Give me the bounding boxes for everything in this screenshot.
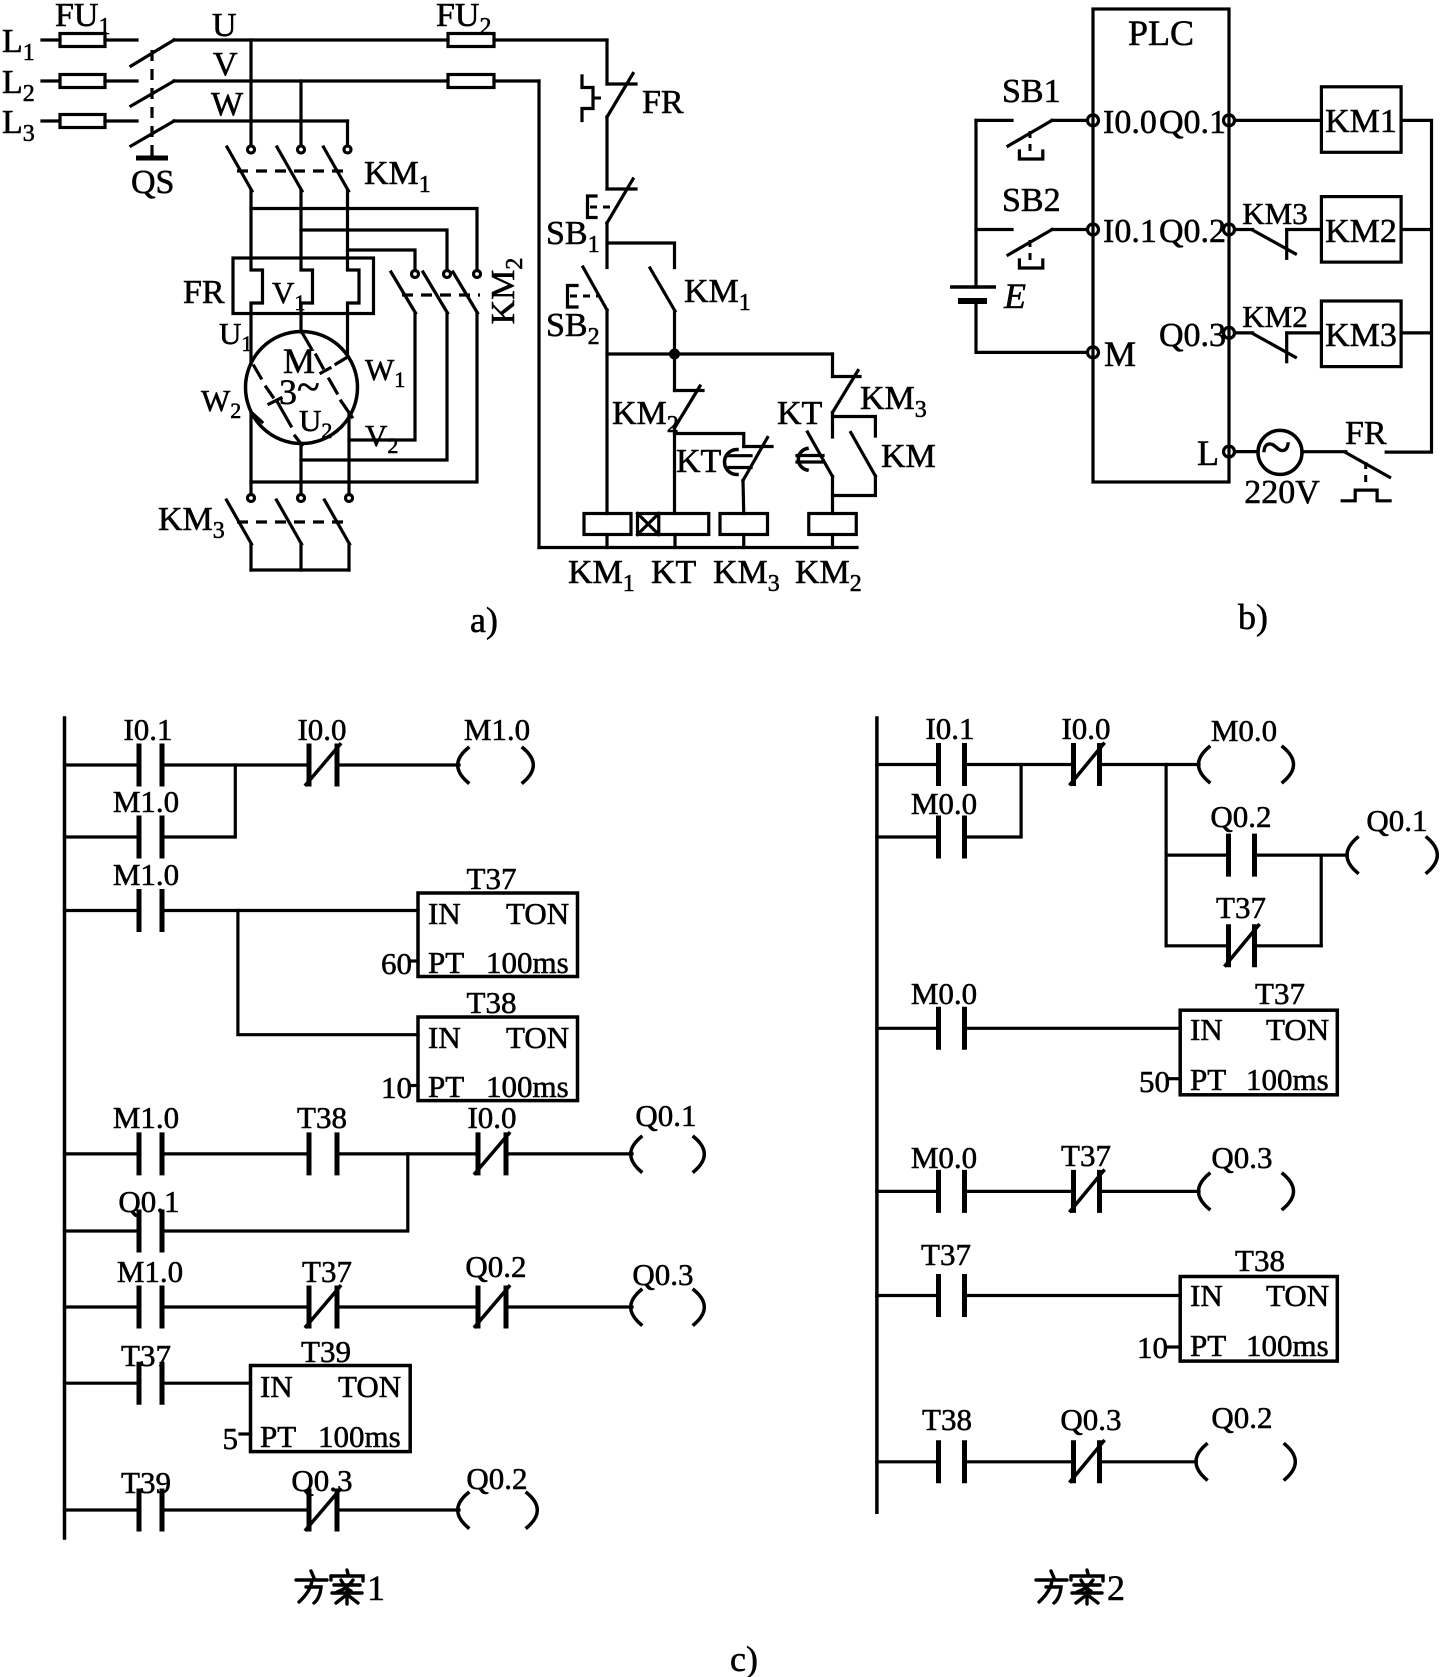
svg-text:Q0.2: Q0.2 xyxy=(465,1249,526,1284)
rung4 wire xyxy=(65,1305,633,1308)
wire junction row xyxy=(607,352,833,355)
T37 preset 60 xyxy=(381,946,418,981)
contactor KM1 aux contact xyxy=(650,268,675,311)
contact M1.0 r3 xyxy=(139,1132,162,1175)
svg-text:50: 50 xyxy=(1139,1064,1170,1099)
SB2 actuator xyxy=(568,286,599,308)
svg-text:60: 60 xyxy=(381,946,412,981)
svg-text:I0.0: I0.0 xyxy=(1103,104,1157,141)
wire input bus xyxy=(976,120,1086,352)
contact Q0.1 latch xyxy=(139,1210,162,1253)
svg-text:T37: T37 xyxy=(1216,890,1266,925)
svg-text:M: M xyxy=(1104,334,1136,374)
svg-text:KT: KT xyxy=(676,443,722,480)
timer box T38 xyxy=(418,1017,578,1101)
wire KM3 coil to bus xyxy=(742,535,745,548)
svg-text:U: U xyxy=(212,7,237,44)
label fangan2 an glyph xyxy=(1071,1570,1103,1604)
svg-text:V: V xyxy=(213,46,238,83)
svg-text:10: 10 xyxy=(381,1070,412,1105)
coil M1.0 xyxy=(458,748,534,783)
wire KM1 coil to bus xyxy=(605,535,608,548)
svg-text:2: 2 xyxy=(1107,1568,1125,1608)
FR heater element 2 xyxy=(301,258,313,314)
svg-text:I0.1: I0.1 xyxy=(1103,213,1157,250)
contactor KM2 linkage xyxy=(402,293,480,296)
svg-text:QS: QS xyxy=(131,164,174,201)
motor winding mark V2 xyxy=(341,401,352,417)
label fangan2 fang glyph xyxy=(1036,1571,1067,1603)
svg-text:100ms: 100ms xyxy=(1246,1328,1329,1363)
wire V drop xyxy=(299,81,302,146)
svg-text:PT: PT xyxy=(428,1069,464,1104)
contactor KM2 NC aux xyxy=(675,354,704,428)
wire Q0.1 to KM1 xyxy=(1235,119,1322,122)
timer box T37 xyxy=(418,893,578,977)
pushbutton SB1 NC xyxy=(607,179,636,223)
thermal relay FR NC contact xyxy=(607,74,636,118)
wire motor V2 down xyxy=(347,414,350,495)
SB1 plunger xyxy=(1019,131,1042,159)
switch QS blade 3 xyxy=(131,121,174,146)
fuse FU1 phase L2 xyxy=(60,75,105,88)
svg-text:IN: IN xyxy=(1190,1012,1223,1047)
svg-text:M0.0: M0.0 xyxy=(911,1140,977,1175)
svg-text:a): a) xyxy=(470,600,498,640)
terminal Q0.2 xyxy=(1224,224,1235,235)
svg-text:c): c) xyxy=(730,1639,758,1677)
label fangan1 an glyph xyxy=(331,1570,363,1604)
svg-text:~: ~ xyxy=(1261,417,1291,479)
T39 preset 5 xyxy=(223,1421,251,1456)
wire U drop xyxy=(249,40,252,146)
svg-text:IN: IN xyxy=(1190,1278,1223,1313)
rung3 wire l2 xyxy=(877,1190,1199,1193)
fuse FU1 phase L1 xyxy=(60,34,105,47)
svg-text:Q0.3: Q0.3 xyxy=(1060,1402,1121,1437)
motor winding mark W1-dash xyxy=(321,358,346,373)
timer KT delayed NC contact xyxy=(725,438,773,481)
SB2 plunger xyxy=(1019,240,1042,268)
svg-text:M1.0: M1.0 xyxy=(113,784,179,819)
contactor KM2 contact 2 xyxy=(423,271,451,314)
svg-text:FR: FR xyxy=(183,274,225,311)
terminal I0.1 xyxy=(1088,224,1099,235)
wire phase V to FR xyxy=(299,191,302,258)
wire KM2 out 2 xyxy=(301,313,447,460)
wire motor W2 down xyxy=(249,412,252,495)
contact M0.0 latch xyxy=(939,816,965,859)
fuse FU1 phase L3 xyxy=(60,115,105,128)
coil KT xyxy=(638,514,709,535)
svg-text:TON: TON xyxy=(506,1020,569,1055)
svg-text:Q0.2: Q0.2 xyxy=(1211,1400,1272,1435)
coil Q0.3 l2 xyxy=(1199,1174,1294,1209)
svg-text:IN: IN xyxy=(260,1369,293,1404)
svg-text:TON: TON xyxy=(338,1369,401,1404)
contactor KM2 contact 1 xyxy=(391,271,419,314)
PLC box xyxy=(1093,9,1229,482)
coil KM2 xyxy=(809,514,857,535)
svg-text:KM3: KM3 xyxy=(1242,196,1307,231)
svg-text:Q0.1: Q0.1 xyxy=(1159,104,1226,141)
contact Q0.3 NC r6 xyxy=(306,1489,340,1532)
svg-text:T37: T37 xyxy=(467,861,517,896)
terminal Q0.1 xyxy=(1224,115,1235,126)
wire L stub xyxy=(1235,450,1259,453)
contact Q0.2 NC r4 xyxy=(475,1286,509,1329)
svg-text:T37: T37 xyxy=(302,1254,352,1289)
wire control feed U-phase xyxy=(605,40,608,84)
svg-text:SB1: SB1 xyxy=(1002,73,1061,110)
relay box KM1 xyxy=(1321,87,1401,153)
SB1 actuator xyxy=(588,196,617,218)
svg-text:b): b) xyxy=(1238,597,1268,637)
FR trip actuator xyxy=(1342,462,1390,501)
svg-text:I0.1: I0.1 xyxy=(925,711,974,746)
svg-text:M1.0: M1.0 xyxy=(113,1100,179,1135)
svg-text:Q0.3: Q0.3 xyxy=(1159,317,1226,354)
rung4 wire l2 xyxy=(877,1294,1180,1297)
contact M1.0 r4 xyxy=(139,1286,162,1329)
contact T37 r5 xyxy=(139,1362,162,1405)
svg-text:M0.0: M0.0 xyxy=(911,976,977,1011)
switch QS linkage xyxy=(150,50,153,157)
fuse FU2 phase U xyxy=(448,34,494,47)
contact T37 NC subnet xyxy=(1226,924,1259,967)
wire output bus xyxy=(1386,120,1431,452)
svg-text:T37: T37 xyxy=(121,1338,171,1373)
svg-text:KM: KM xyxy=(881,438,936,475)
rung2 wire xyxy=(65,909,419,912)
rung6 wire xyxy=(65,1508,460,1511)
svg-text:PLC: PLC xyxy=(1128,13,1194,53)
rung1 wire xyxy=(65,763,460,766)
contactor KM3 contact 1 xyxy=(227,495,255,545)
svg-text:100ms: 100ms xyxy=(486,1069,569,1104)
svg-text:1: 1 xyxy=(367,1568,385,1608)
svg-text:M1.0: M1.0 xyxy=(117,1254,183,1289)
svg-text:KM3: KM3 xyxy=(1325,317,1397,354)
branch M0.0 wire xyxy=(877,765,1021,838)
svg-text:W: W xyxy=(211,86,244,123)
rung3 wire xyxy=(65,1152,633,1155)
coil Q0.2 r6 xyxy=(458,1493,538,1528)
terminal M xyxy=(1088,347,1099,358)
subnet Q0.2 row wire xyxy=(1166,853,1321,856)
interlock contact KM3 NC xyxy=(1253,230,1322,259)
contact T37 NC r3 xyxy=(1071,1170,1104,1213)
svg-text:100ms: 100ms xyxy=(318,1419,401,1454)
svg-text:T38: T38 xyxy=(922,1402,972,1437)
contact Q0.2 xyxy=(1229,834,1255,877)
contactor KM3 contact 2 xyxy=(277,495,305,545)
wire branch to KT contact xyxy=(675,434,744,447)
svg-text:M1.0: M1.0 xyxy=(113,857,179,892)
coil KM3 xyxy=(720,514,768,535)
svg-text:Q0.1: Q0.1 xyxy=(1366,803,1427,838)
contact I0.0 NC l2 xyxy=(1071,743,1104,786)
FR heater element 3 xyxy=(348,258,360,314)
wire L2 feed xyxy=(42,79,137,82)
wire KM2 out 3 xyxy=(251,313,477,482)
timer box T39 xyxy=(251,1366,411,1452)
svg-text:KM2: KM2 xyxy=(1325,213,1397,250)
wire control bottom bus xyxy=(539,546,857,549)
wire W line xyxy=(174,119,348,122)
rung1 wire l2 xyxy=(877,763,1199,766)
svg-text:I0.1: I0.1 xyxy=(123,712,172,747)
contact I0.0 NC r3 xyxy=(475,1132,509,1175)
wire L1 feed xyxy=(42,38,137,41)
wire Q0.3 stub xyxy=(1235,331,1253,334)
svg-text:T38: T38 xyxy=(1235,1243,1285,1278)
svg-text:T38: T38 xyxy=(467,985,517,1020)
subnet vertical left xyxy=(1164,765,1167,946)
wire Q0.2 stub xyxy=(1235,228,1253,231)
contactor KM1 main contact 2 xyxy=(277,146,305,191)
wire L3 feed xyxy=(42,119,137,122)
wire phase W to FR xyxy=(346,191,349,258)
terminal L xyxy=(1224,446,1235,457)
svg-text:Q0.2: Q0.2 xyxy=(1159,213,1226,250)
svg-text:I0.0: I0.0 xyxy=(1061,711,1110,746)
motor winding mark V1 xyxy=(302,333,311,349)
timer KT delayed NO contact xyxy=(797,417,833,477)
contact M0.0 r3 xyxy=(939,1170,965,1213)
wire source to FR xyxy=(1302,450,1346,453)
FR heater actuator xyxy=(582,76,607,121)
node junction dot xyxy=(669,349,680,360)
motor winding mark U2 xyxy=(278,403,302,445)
wire branch V to KM2 xyxy=(301,230,447,271)
svg-text:220V: 220V xyxy=(1244,474,1320,511)
motor winding mark W2 xyxy=(252,413,262,422)
coil Q0.2 l2 xyxy=(1196,1444,1295,1479)
wire FR to motor U1 xyxy=(249,314,252,365)
wire motor U2 down xyxy=(299,444,302,495)
motor winding mark U1-dash xyxy=(254,366,273,397)
contactor KM3 linkage xyxy=(237,520,344,523)
contactor KM3 contact 3 xyxy=(325,495,353,545)
contactor KM1 linkage xyxy=(237,169,344,172)
wire KT contact to KM3 coil xyxy=(741,481,745,514)
wire V line xyxy=(174,79,539,82)
rung5 wire l2 xyxy=(877,1460,1196,1463)
wire to KM2 coil xyxy=(831,496,834,514)
svg-text:Q0.3: Q0.3 xyxy=(291,1463,352,1498)
T38 preset 10 xyxy=(1137,1330,1180,1365)
svg-text:I0.0: I0.0 xyxy=(467,1100,516,1135)
coil Q0.1 l2 xyxy=(1321,838,1437,873)
svg-text:10: 10 xyxy=(1137,1330,1168,1365)
svg-text:I0.0: I0.0 xyxy=(297,712,346,747)
timer box T37 l2 xyxy=(1180,1010,1337,1095)
svg-text:T37: T37 xyxy=(1255,976,1305,1011)
wire parallel bottom bar xyxy=(833,476,876,496)
T38 preset 10 xyxy=(381,1070,418,1105)
svg-text:E: E xyxy=(1003,276,1026,316)
svg-text:Q0.1: Q0.1 xyxy=(118,1184,179,1219)
svg-text:5: 5 xyxy=(223,1421,239,1456)
thermal relay FR heater box xyxy=(233,258,374,314)
contactor KM1 main contact 1 xyxy=(227,146,255,191)
switch QS blade 2 xyxy=(131,81,174,106)
svg-text:FR: FR xyxy=(1345,415,1387,452)
wire W drop xyxy=(346,121,349,146)
wire KM1 aux down xyxy=(673,311,676,354)
motor winding mark V1-dash xyxy=(316,355,337,393)
svg-text:KT: KT xyxy=(777,395,823,432)
contact T39 r6 xyxy=(139,1489,162,1532)
svg-text:T37: T37 xyxy=(1061,1138,1111,1173)
coil Q0.3 xyxy=(631,1290,705,1325)
switch QS bar xyxy=(136,156,168,161)
subnet vertical right xyxy=(1320,855,1323,946)
svg-text:TON: TON xyxy=(1266,1012,1329,1047)
contact I0.1 xyxy=(139,744,162,787)
rung5 wire xyxy=(65,1382,251,1385)
svg-text:SB2: SB2 xyxy=(1002,182,1061,219)
rung2 wire l2 xyxy=(877,1027,1180,1030)
contact T38 r3 xyxy=(309,1132,337,1175)
contactor KM2 contact 3 xyxy=(453,271,481,314)
svg-text:Q0.3: Q0.3 xyxy=(632,1257,693,1292)
motor winding tick xyxy=(269,398,281,404)
svg-text:Q0.2: Q0.2 xyxy=(466,1461,527,1496)
contact M0.0 r2 xyxy=(939,1007,965,1050)
wire SB1 to SB2 xyxy=(605,223,608,268)
wire KM2aux to KT coil xyxy=(673,428,676,514)
wire branch U to KM2 xyxy=(251,209,477,271)
wire FR to motor W1 xyxy=(346,314,349,358)
AC source 220V xyxy=(1258,417,1302,479)
svg-text:Q0.1: Q0.1 xyxy=(635,1098,696,1133)
relay box KM2 xyxy=(1321,197,1401,263)
wire star bar xyxy=(251,568,349,571)
svg-text:Q0.2: Q0.2 xyxy=(1210,799,1271,834)
coil M0.0 xyxy=(1199,747,1294,782)
svg-text:L: L xyxy=(1197,433,1219,473)
terminal Q0.3 xyxy=(1224,327,1235,338)
coil KM1 xyxy=(584,514,631,535)
interlock contact KM2 NC xyxy=(1253,333,1322,362)
fuse FU2 phase V xyxy=(448,75,494,88)
svg-text:Q0.3: Q0.3 xyxy=(1211,1140,1272,1175)
contact Q0.3 NC r5 xyxy=(1071,1440,1104,1483)
label fangan1 fang glyph xyxy=(296,1571,327,1603)
FR heater element 1 xyxy=(251,258,263,314)
T37 preset 50 xyxy=(1139,1064,1180,1099)
motor M circle xyxy=(246,332,358,444)
contact M1.0 latch xyxy=(139,816,162,859)
svg-text:PT: PT xyxy=(1190,1328,1226,1363)
svg-text:KT: KT xyxy=(651,554,697,591)
subnet T37 row wire xyxy=(1166,944,1321,947)
wire KM3 outputs to star bar xyxy=(251,544,349,570)
svg-text:KM1: KM1 xyxy=(1325,103,1397,140)
coil Q0.1 xyxy=(631,1137,705,1172)
svg-text:PT: PT xyxy=(428,945,464,980)
svg-text:100ms: 100ms xyxy=(1246,1062,1329,1097)
contact M1.0 r2 xyxy=(139,889,162,932)
contact T37 r4 xyxy=(939,1274,965,1317)
svg-text:TON: TON xyxy=(506,896,569,931)
wire KM2 out 1 xyxy=(349,313,415,440)
svg-text:M0.0: M0.0 xyxy=(911,786,977,821)
terminal I0.0 xyxy=(1088,115,1099,126)
branch Q0.1 wire xyxy=(65,1154,408,1231)
svg-text:PT: PT xyxy=(1190,1062,1226,1097)
ladder1 left rail xyxy=(63,718,67,1538)
contactor KM3 NC aux xyxy=(833,354,861,413)
wire FR to SB1 xyxy=(605,117,608,189)
contact T37 NC r4 xyxy=(306,1286,340,1329)
battery E xyxy=(950,287,996,301)
branch M1.0 wire xyxy=(65,765,236,837)
pushbutton SB2 xyxy=(976,230,1087,256)
svg-text:PT: PT xyxy=(260,1419,296,1454)
switch QS blade 1 xyxy=(131,40,174,66)
ladder2 left rail xyxy=(875,718,879,1512)
wire KM2 coil to bus xyxy=(831,535,834,548)
svg-text:IN: IN xyxy=(428,1020,461,1055)
svg-text:100ms: 100ms xyxy=(486,945,569,980)
svg-text:T39: T39 xyxy=(301,1334,351,1369)
svg-text:IN: IN xyxy=(428,896,461,931)
svg-text:M1.0: M1.0 xyxy=(464,712,530,747)
svg-text:TON: TON xyxy=(1266,1278,1329,1313)
wire parallel top bar xyxy=(833,413,876,437)
svg-text:T38: T38 xyxy=(297,1100,347,1135)
svg-text:M0.0: M0.0 xyxy=(1211,713,1277,748)
wire FR to motor V1 xyxy=(299,314,302,333)
thermal contact FR NC xyxy=(1346,453,1390,478)
contact I0.0 NC xyxy=(306,744,340,787)
timer box T38 l2 xyxy=(1180,1277,1337,1362)
wire KT coil to bus xyxy=(673,535,676,548)
contact T38 r5 xyxy=(939,1440,965,1483)
contactor KM NO aux xyxy=(851,433,876,477)
svg-text:T37: T37 xyxy=(921,1237,971,1272)
svg-text:FR: FR xyxy=(642,84,684,121)
contact I0.1 l2 xyxy=(939,743,965,786)
pushbutton SB1 xyxy=(976,120,1087,146)
contactor KM1 main contact 3 xyxy=(324,146,352,191)
wire branch W to KM2 xyxy=(348,250,416,271)
pushbutton SB2 NO xyxy=(583,267,607,310)
wire branch to KM1 aux xyxy=(607,243,675,268)
wire U line xyxy=(174,38,607,41)
branch to T38 wire xyxy=(238,911,418,1035)
svg-text:T39: T39 xyxy=(121,1465,171,1500)
wire phase U to FR xyxy=(249,191,252,258)
wire control feed V-phase xyxy=(537,81,540,548)
relay box KM3 xyxy=(1321,301,1401,367)
svg-text:KM2: KM2 xyxy=(1242,299,1307,334)
wire SB2 down to coil KM1 xyxy=(605,310,608,514)
